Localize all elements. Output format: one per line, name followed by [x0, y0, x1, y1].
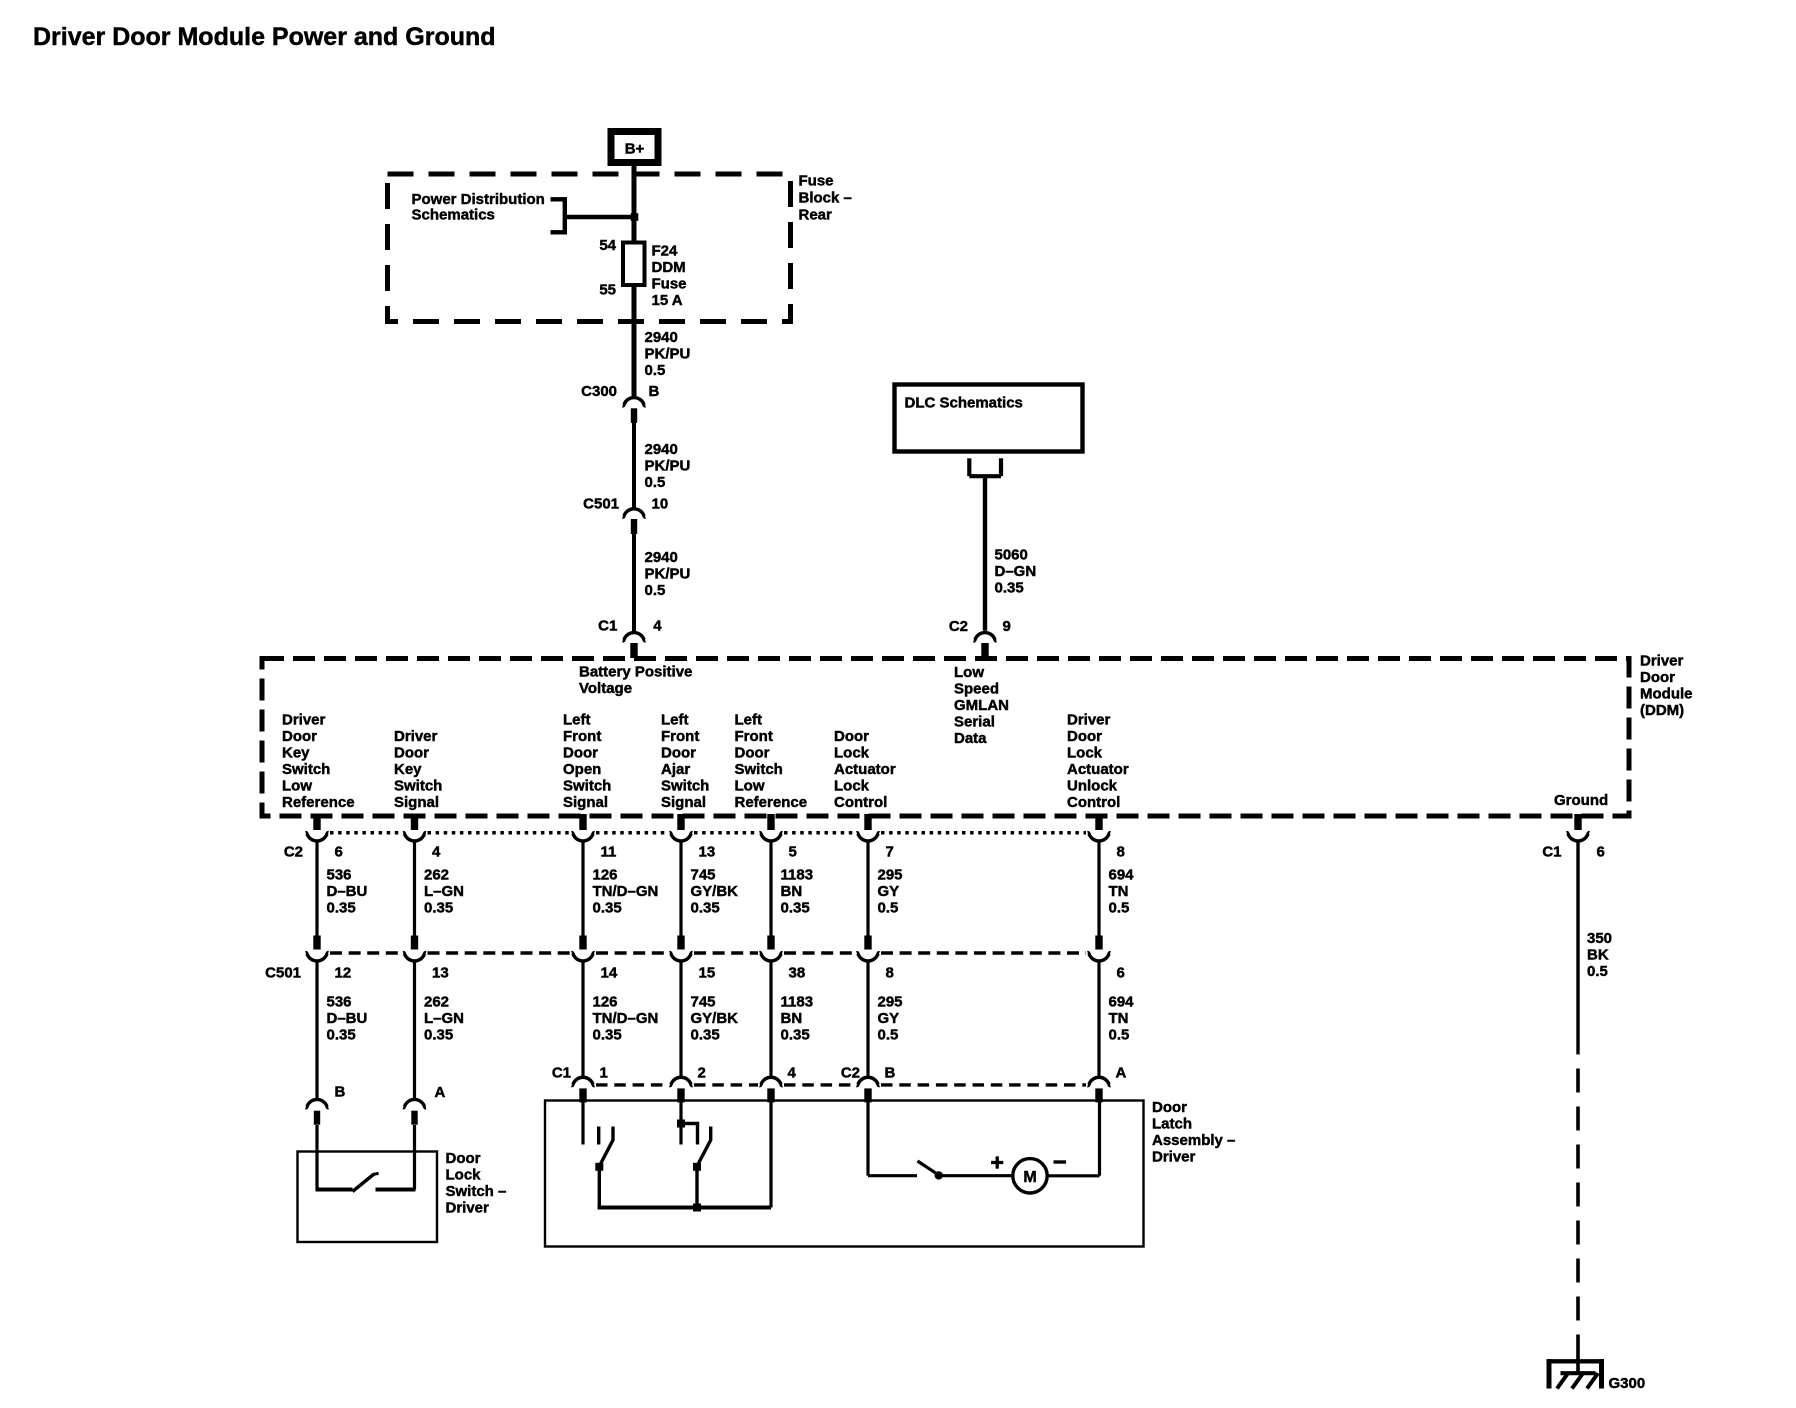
svg-text:350: 350: [1587, 930, 1612, 947]
svg-text:Switch: Switch: [563, 778, 611, 795]
wire label 2940 PK/PU 0.5 (segment 1): [645, 329, 691, 379]
svg-text:Low: Low: [735, 778, 765, 795]
svg-text:0.35: 0.35: [593, 1027, 622, 1044]
wire label 1183 BN 0.35 (lower): [781, 994, 814, 1044]
wire stem into ground symbol: [1576, 1352, 1580, 1373]
connector C2 terminal 7 pin: [857, 814, 894, 861]
wire 694 TN from C501-6 down: [1097, 961, 1100, 1076]
svg-text:C1: C1: [598, 617, 617, 634]
svg-text:C1: C1: [552, 1065, 571, 1082]
svg-text:0.5: 0.5: [645, 582, 666, 599]
wire 126 TN/D–GN from C2-11 to C501: [581, 841, 584, 936]
svg-text:0.35: 0.35: [424, 1027, 453, 1044]
wire 2940 PK/PU from C501 to DDM C1: [632, 534, 636, 631]
svg-text:B: B: [649, 383, 660, 400]
junction node at trunk: [631, 213, 639, 221]
svg-text:A: A: [1116, 1065, 1127, 1082]
net label Driver Door Key Switch Signal: [394, 728, 442, 811]
svg-text:G300: G300: [1609, 1375, 1646, 1392]
svg-text:TN/D–GN: TN/D–GN: [593, 883, 659, 900]
svg-text:Module: Module: [1640, 686, 1693, 703]
svg-text:Front: Front: [563, 728, 601, 745]
wire 350 BK from C1-6 (solid): [1576, 840, 1579, 1055]
connector C2 label (DDM lower row): [284, 844, 303, 861]
svg-text:Left: Left: [563, 712, 591, 729]
wire 2940 PK/PU from C300 to C501: [632, 421, 636, 509]
junction node on terminal 2 wire: [677, 1120, 685, 1128]
bracket to Power Distribution Schematics: [551, 197, 565, 234]
connector C300 terminal B: [581, 383, 659, 423]
label Door Latch Assembly - Driver: [1152, 1099, 1235, 1166]
wire label 126 TN/D–GN 0.35 (lower): [593, 994, 659, 1044]
connector C2 terminal 6 pin: [306, 814, 343, 861]
svg-text:TN/D–GN: TN/D–GN: [593, 1010, 659, 1027]
svg-text:55: 55: [599, 282, 616, 299]
svg-text:TN: TN: [1109, 883, 1129, 900]
wire 262 L–GN from C501-13 down: [413, 961, 416, 1098]
svg-text:C2: C2: [949, 618, 968, 635]
net label Door Lock Actuator Lock Control: [834, 728, 896, 811]
svg-text:Door: Door: [282, 728, 317, 745]
svg-text:Front: Front: [661, 728, 699, 745]
C2 connector row dotted separator: [330, 831, 1086, 835]
svg-text:Lock: Lock: [446, 1167, 482, 1184]
door latch assembly - driver (box): [545, 1101, 1144, 1247]
svg-text:BN: BN: [781, 1010, 803, 1027]
svg-text:4: 4: [432, 844, 441, 861]
svg-text:Signal: Signal: [563, 794, 608, 811]
driver door module DDM (dashed enclosure): [262, 659, 1629, 817]
svg-text:12: 12: [335, 965, 352, 982]
svg-text:Block –: Block –: [799, 190, 852, 207]
connector C2 terminal 11 pin: [572, 814, 617, 861]
svg-text:0.35: 0.35: [781, 1027, 810, 1044]
svg-text:0.5: 0.5: [645, 362, 666, 379]
svg-text:126: 126: [593, 994, 618, 1011]
svg-text:295: 295: [878, 994, 903, 1011]
wire label 5060 D-GN 0.35: [995, 547, 1037, 597]
latch wire from terminal 4 to common rail: [769, 1101, 772, 1208]
svg-text:0.5: 0.5: [878, 900, 899, 917]
svg-text:B: B: [885, 1065, 896, 1082]
svg-text:A: A: [435, 1084, 446, 1101]
svg-text:C2: C2: [284, 844, 303, 861]
svg-text:Power Distribution: Power Distribution: [412, 191, 545, 208]
wire 350 BK dashed run to G300: [1576, 1055, 1580, 1353]
connector C1 label (door latch): [552, 1065, 571, 1082]
svg-text:6: 6: [1597, 844, 1605, 861]
net label Driver Door Lock Actuator Unlock Control: [1067, 712, 1129, 812]
wire B+ to fuse F24 pin 54: [632, 165, 637, 241]
svg-text:Door: Door: [1152, 1099, 1187, 1116]
svg-text:Control: Control: [1067, 794, 1120, 811]
connector C501 terminal 14 pin: [572, 936, 618, 982]
svg-text:Reference: Reference: [735, 794, 808, 811]
svg-text:Door: Door: [661, 745, 696, 762]
svg-text:5060: 5060: [995, 547, 1028, 564]
svg-text:Left: Left: [661, 712, 689, 729]
svg-text:0.5: 0.5: [1109, 1027, 1130, 1044]
DLC Schematics reference box: [895, 385, 1083, 452]
connector C501 terminal 38 pin: [760, 936, 806, 982]
svg-text:Assembly –: Assembly –: [1152, 1132, 1235, 1149]
svg-text:Driver: Driver: [394, 728, 438, 745]
svg-text:13: 13: [699, 844, 716, 861]
svg-text:F24: F24: [652, 243, 679, 260]
wire 126 TN/D–GN from C501-14 down: [581, 961, 584, 1076]
fuse block - rear (dashed enclosure): [388, 174, 791, 322]
latch common rail wire: [598, 1206, 771, 1210]
svg-text:Front: Front: [735, 728, 773, 745]
svg-text:745: 745: [691, 867, 716, 884]
wire label 745 GY/BK 0.35 (upper): [691, 867, 739, 917]
motor M (door lock actuator): [1013, 1159, 1047, 1193]
wire 5060 D-GN from DLC to DDM C2: [983, 476, 987, 631]
svg-text:0.5: 0.5: [878, 1027, 899, 1044]
svg-text:PK/PU: PK/PU: [645, 458, 691, 475]
svg-text:L–GN: L–GN: [424, 883, 464, 900]
svg-text:Ajar: Ajar: [661, 761, 690, 778]
svg-text:B: B: [335, 1084, 346, 1101]
svg-text:6: 6: [1117, 965, 1125, 982]
wire label 2940 PK/PU 0.5 (segment 3): [645, 549, 691, 599]
svg-text:Door: Door: [446, 1150, 481, 1167]
wire A terminal into lock switch box: [413, 1125, 416, 1152]
label G300: [1609, 1375, 1646, 1392]
connector C2 label (door latch): [841, 1065, 860, 1082]
wire label 126 TN/D–GN 0.35 (upper): [593, 867, 659, 917]
wire 295 GY from C2-7 to C501: [866, 841, 869, 936]
svg-text:GMLAN: GMLAN: [954, 697, 1009, 714]
svg-text:295: 295: [878, 867, 903, 884]
connector C501 terminal 13 pin: [403, 936, 449, 982]
svg-text:694: 694: [1109, 867, 1135, 884]
svg-text:38: 38: [789, 965, 806, 982]
motor polarity plus: [991, 1156, 1003, 1168]
connector terminal 4 (door latch): [760, 1065, 797, 1103]
svg-text:126: 126: [593, 867, 618, 884]
svg-text:7: 7: [886, 844, 894, 861]
svg-text:DLC Schematics: DLC Schematics: [905, 395, 1023, 412]
svg-text:0.5: 0.5: [1587, 963, 1608, 980]
svg-text:Rear: Rear: [799, 207, 833, 224]
latch motor switch blade: [918, 1161, 943, 1180]
bracket below DLC box: [969, 458, 1001, 476]
svg-text:Low: Low: [954, 664, 984, 681]
title: [33, 23, 496, 51]
svg-text:Data: Data: [954, 730, 987, 747]
svg-text:C1: C1: [1542, 844, 1561, 861]
svg-text:PK/PU: PK/PU: [645, 566, 691, 583]
connector C501 label (body row): [265, 965, 301, 982]
latch switch 2 contacts and blade: [681, 1124, 711, 1208]
svg-text:0.35: 0.35: [327, 1027, 356, 1044]
svg-text:C501: C501: [583, 495, 619, 512]
wire 295 GY from C501-8 down: [866, 961, 869, 1076]
svg-text:Door: Door: [735, 745, 770, 762]
label F24 DDM Fuse 15 A: [652, 243, 687, 310]
svg-text:694: 694: [1109, 994, 1135, 1011]
svg-text:745: 745: [691, 994, 716, 1011]
svg-text:0.35: 0.35: [691, 1027, 720, 1044]
svg-text:GY/BK: GY/BK: [691, 1010, 739, 1027]
wire label 295 GY 0.5 (lower): [878, 994, 903, 1044]
svg-text:Switch –: Switch –: [446, 1183, 507, 1200]
connector C2 terminal 4 pin: [403, 814, 441, 861]
wire 694 TN from C2-8 to C501: [1097, 841, 1100, 936]
svg-text:DDM: DDM: [652, 259, 686, 276]
wire B terminal into lock switch box: [315, 1125, 318, 1152]
svg-text:BK: BK: [1587, 947, 1609, 964]
latch switch 1 wire from terminal 1: [581, 1101, 584, 1145]
svg-text:Switch: Switch: [282, 761, 330, 778]
wire label 694 TN 0.5 (lower): [1109, 994, 1135, 1044]
label Door Lock Switch - Driver: [446, 1150, 507, 1217]
svg-text:D–GN: D–GN: [995, 563, 1037, 580]
net label Ground: [1554, 792, 1608, 809]
svg-text:10: 10: [652, 495, 669, 512]
svg-text:11: 11: [601, 844, 617, 861]
svg-text:Lock: Lock: [1067, 745, 1103, 762]
connector terminal A (door latch): [1088, 1065, 1127, 1103]
svg-text:GY: GY: [878, 1010, 900, 1027]
svg-text:4: 4: [653, 617, 662, 634]
svg-text:536: 536: [327, 867, 352, 884]
svg-text:Switch: Switch: [394, 778, 442, 795]
connector C501 terminal 6 pin: [1088, 936, 1125, 982]
svg-text:Driver: Driver: [1640, 653, 1684, 670]
svg-text:L–GN: L–GN: [424, 1010, 464, 1027]
wire label 2940 PK/PU 0.5 (segment 2): [645, 441, 691, 491]
wire label 262 L–GN 0.35 (lower): [424, 994, 464, 1044]
node B+ battery positive terminal: [608, 128, 662, 166]
connector terminal A (door lock switch): [403, 1084, 445, 1125]
svg-text:B+: B+: [625, 141, 645, 158]
svg-text:Door: Door: [394, 745, 429, 762]
latch connector row dashed separator: [596, 1083, 1086, 1086]
svg-text:Fuse: Fuse: [799, 173, 834, 190]
svg-text:Ground: Ground: [1554, 792, 1608, 809]
svg-text:Speed: Speed: [954, 681, 999, 698]
wire 262 L–GN from C2-4 to C501: [413, 841, 416, 936]
svg-text:Key: Key: [282, 745, 310, 762]
svg-text:C501: C501: [265, 965, 301, 982]
latch switch 2 wire from terminal 2: [679, 1101, 682, 1124]
connector C2 terminal 9: [949, 618, 1011, 658]
svg-text:Driver: Driver: [1152, 1149, 1196, 1166]
svg-text:262: 262: [424, 994, 449, 1011]
svg-text:Door: Door: [1640, 669, 1675, 686]
connector C501 terminal 8 pin: [857, 936, 894, 982]
svg-text:15: 15: [699, 965, 716, 982]
wire motor switch to motor: [941, 1174, 1013, 1177]
svg-text:Schematics: Schematics: [412, 207, 495, 224]
svg-text:Reference: Reference: [282, 794, 355, 811]
pin 55 label: [599, 282, 616, 299]
svg-text:0.35: 0.35: [781, 900, 810, 917]
wire 745 GY/BK from C501-15 down: [679, 961, 682, 1076]
net label Left Front Door Switch Low Reference: [735, 712, 808, 812]
svg-text:Driver: Driver: [282, 712, 326, 729]
door lock switch - driver (box): [298, 1152, 438, 1243]
latch wire from terminal B to motor switch: [868, 1101, 917, 1176]
svg-text:1183: 1183: [781, 867, 814, 884]
connector terminal B (door lock switch): [306, 1084, 346, 1125]
svg-text:Key: Key: [394, 761, 422, 778]
svg-text:Unlock: Unlock: [1067, 778, 1118, 795]
wire label 262 L–GN 0.35 (upper): [424, 867, 464, 917]
svg-text:262: 262: [424, 867, 449, 884]
door lock switch contacts and blade: [316, 1152, 416, 1192]
connector C1 terminal 6 (DDM ground): [1542, 814, 1605, 861]
svg-text:15 A: 15 A: [652, 292, 683, 309]
svg-text:M: M: [1023, 1169, 1036, 1186]
svg-text:GY/BK: GY/BK: [691, 883, 739, 900]
label Driver Door Module (DDM): [1640, 653, 1693, 720]
svg-text:Signal: Signal: [661, 794, 706, 811]
svg-text:Door: Door: [1067, 728, 1102, 745]
svg-text:Actuator: Actuator: [834, 761, 896, 778]
net label Left Front Door Ajar Switch Signal: [661, 712, 709, 812]
svg-text:Signal: Signal: [394, 794, 439, 811]
fuse F24 DDM 15 A: [623, 243, 645, 286]
svg-text:2940: 2940: [645, 549, 678, 566]
latch switch 1 contacts and blade: [595, 1127, 613, 1210]
svg-text:Driver: Driver: [1067, 712, 1111, 729]
svg-text:Serial: Serial: [954, 714, 995, 731]
connector terminal B (door latch): [857, 1065, 896, 1103]
svg-text:BN: BN: [781, 883, 803, 900]
connector C501 terminal 12 pin: [306, 936, 352, 982]
svg-text:Actuator: Actuator: [1067, 761, 1129, 778]
svg-text:1: 1: [600, 1065, 608, 1082]
svg-text:536: 536: [327, 994, 352, 1011]
connector C2 terminal 13 pin: [670, 814, 716, 861]
connector C501 terminal 10: [583, 495, 668, 534]
svg-text:0.5: 0.5: [645, 474, 666, 491]
svg-text:TN: TN: [1109, 1010, 1129, 1027]
svg-text:0.35: 0.35: [995, 580, 1024, 597]
wire label 536 D–BU 0.35 (lower): [327, 994, 368, 1044]
net label Left Front Door Open Switch Signal: [563, 712, 611, 812]
connector C2 terminal 8 pin: [1088, 814, 1125, 861]
svg-text:8: 8: [886, 965, 894, 982]
svg-text:D–BU: D–BU: [327, 883, 368, 900]
svg-text:54: 54: [599, 237, 616, 254]
connector C2 terminal 5 pin: [760, 814, 797, 861]
wire 1183 BN from C2-5 to C501: [769, 841, 772, 936]
junction node on latch common rail: [693, 1204, 701, 1212]
svg-text:Voltage: Voltage: [579, 680, 632, 697]
svg-text:8: 8: [1117, 844, 1125, 861]
wire 536 D–BU from C501-12 down: [315, 961, 318, 1098]
svg-text:2940: 2940: [645, 441, 678, 458]
svg-text:1183: 1183: [781, 994, 814, 1011]
svg-text:0.35: 0.35: [424, 900, 453, 917]
ground symbol G300: [1547, 1359, 1605, 1388]
svg-text:Low: Low: [282, 778, 312, 795]
svg-text:14: 14: [601, 965, 618, 982]
connector terminal 2 (door latch): [670, 1065, 706, 1103]
label Fuse Block - Rear: [799, 173, 852, 224]
svg-text:Driver: Driver: [446, 1200, 490, 1217]
wire from power distribution bracket to trunk: [565, 215, 636, 219]
svg-text:Switch: Switch: [735, 761, 783, 778]
label Power Distribution Schematics: [412, 191, 545, 224]
svg-text:5: 5: [789, 844, 797, 861]
svg-text:2: 2: [698, 1065, 706, 1082]
net label Driver Door Key Switch Low Reference: [282, 712, 355, 812]
wire 536 D–BU from C2-6 to C501: [315, 841, 318, 936]
connector C501 terminal 15 pin: [670, 936, 716, 982]
svg-text:0.35: 0.35: [327, 900, 356, 917]
motor polarity minus: [1054, 1160, 1067, 1163]
svg-text:4: 4: [788, 1065, 797, 1082]
C501 connector row dashed separator: [330, 951, 1086, 954]
net label Battery Positive Voltage: [579, 664, 692, 698]
svg-text:(DDM): (DDM): [1640, 702, 1684, 719]
net label Low Speed GMLAN Serial Data: [954, 664, 1009, 747]
wire label 350 BK 0.5: [1587, 930, 1612, 980]
svg-text:0.5: 0.5: [1109, 900, 1130, 917]
connector C1 terminal 4 (DDM battery feed): [598, 617, 662, 658]
svg-text:PK/PU: PK/PU: [645, 346, 691, 363]
pin 54 label: [599, 237, 616, 254]
svg-text:2940: 2940: [645, 329, 678, 346]
wire label 694 TN 0.5 (upper): [1109, 867, 1135, 917]
svg-text:Driver Door Module Power and G: Driver Door Module Power and Ground: [33, 23, 496, 51]
wire motor to terminal A: [1047, 1101, 1099, 1176]
svg-text:C300: C300: [581, 383, 617, 400]
svg-text:Lock: Lock: [834, 778, 870, 795]
wire label 295 GY 0.5 (upper): [878, 867, 903, 917]
svg-text:Lock: Lock: [834, 745, 870, 762]
wire label 1183 BN 0.35 (upper): [781, 867, 814, 917]
svg-text:Fuse: Fuse: [652, 276, 687, 293]
svg-text:0.35: 0.35: [593, 900, 622, 917]
svg-text:13: 13: [432, 965, 449, 982]
wire 745 GY/BK from C2-13 to C501: [679, 841, 682, 936]
svg-text:9: 9: [1003, 618, 1011, 635]
svg-text:Door: Door: [563, 745, 598, 762]
svg-text:Door: Door: [834, 728, 869, 745]
svg-text:Latch: Latch: [1152, 1116, 1192, 1133]
svg-text:Open: Open: [563, 761, 601, 778]
svg-text:Battery Positive: Battery Positive: [579, 664, 692, 681]
svg-text:Switch: Switch: [661, 778, 709, 795]
svg-text:C2: C2: [841, 1065, 860, 1082]
wire 2940 PK/PU from fuse 55 to C300: [632, 287, 637, 396]
wire 1183 BN from C501-38 down: [769, 961, 772, 1076]
svg-text:0.35: 0.35: [691, 900, 720, 917]
wire label 536 D–BU 0.35 (upper): [327, 867, 368, 917]
svg-text:6: 6: [335, 844, 343, 861]
svg-text:GY: GY: [878, 883, 900, 900]
wire label 745 GY/BK 0.35 (lower): [691, 994, 739, 1044]
svg-text:D–BU: D–BU: [327, 1010, 368, 1027]
svg-text:Left: Left: [735, 712, 763, 729]
connector terminal 1 (door latch): [572, 1065, 608, 1103]
svg-text:Control: Control: [834, 794, 887, 811]
